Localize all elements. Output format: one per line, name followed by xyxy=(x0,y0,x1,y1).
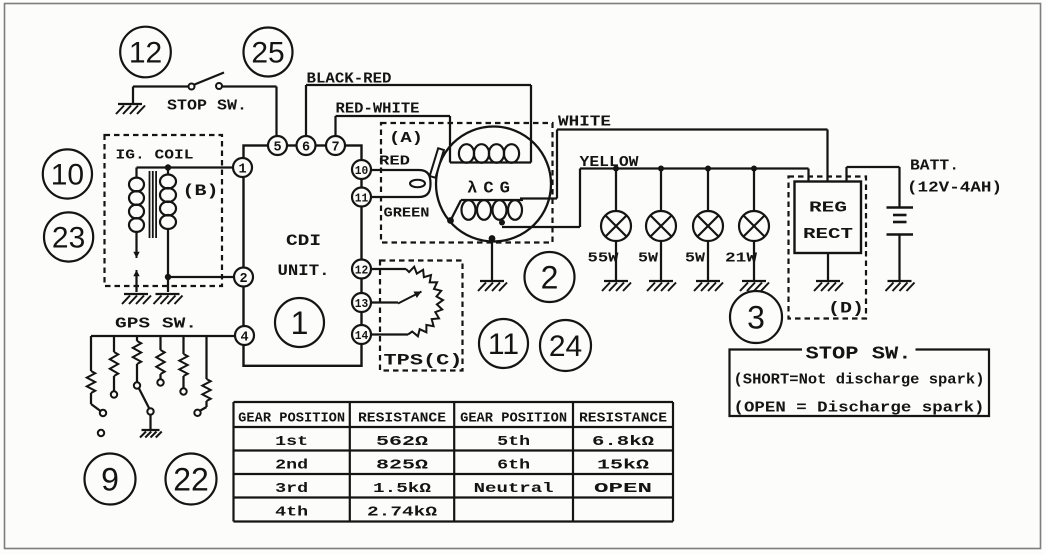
svg-text:7: 7 xyxy=(331,140,339,155)
svg-text:BLACK-RED: BLACK-RED xyxy=(307,71,392,88)
svg-text:9: 9 xyxy=(101,461,119,497)
svg-text:STOP SW.: STOP SW. xyxy=(167,98,247,115)
svg-text:(B): (B) xyxy=(183,182,219,200)
svg-text:4th: 4th xyxy=(275,505,308,521)
svg-text:WHITE: WHITE xyxy=(558,114,611,131)
svg-text:(D): (D) xyxy=(828,300,864,318)
svg-text:REG: REG xyxy=(809,200,847,217)
svg-text:55W: 55W xyxy=(588,252,620,267)
svg-text:(OPEN = Discharge spark): (OPEN = Discharge spark) xyxy=(734,400,985,417)
svg-text:IG. COIL: IG. COIL xyxy=(116,148,194,164)
svg-text:4: 4 xyxy=(240,330,248,345)
svg-text:RED: RED xyxy=(379,155,410,170)
svg-text:2.74kΩ: 2.74kΩ xyxy=(367,505,438,521)
svg-text:RED-WHITE: RED-WHITE xyxy=(336,101,420,118)
svg-text:3: 3 xyxy=(747,299,765,335)
svg-text:21W: 21W xyxy=(725,252,758,267)
svg-text:GREEN: GREEN xyxy=(384,207,430,222)
svg-text:CDI: CDI xyxy=(286,232,321,250)
svg-text:2nd: 2nd xyxy=(275,458,308,474)
svg-text:1: 1 xyxy=(238,162,246,177)
svg-text:11: 11 xyxy=(488,328,519,361)
svg-text:6.8kΩ: 6.8kΩ xyxy=(592,434,655,450)
svg-text:(12V-4AH): (12V-4AH) xyxy=(907,180,1002,197)
svg-text:1.5kΩ: 1.5kΩ xyxy=(373,481,432,497)
svg-text:Neutral: Neutral xyxy=(474,481,554,497)
svg-text:2: 2 xyxy=(541,259,559,295)
svg-text:GPS SW.: GPS SW. xyxy=(115,316,197,333)
svg-text:STOP SW.: STOP SW. xyxy=(806,345,912,365)
svg-text:25: 25 xyxy=(251,37,284,70)
svg-text:2: 2 xyxy=(239,272,247,287)
svg-text:6th: 6th xyxy=(497,458,530,474)
svg-text:12: 12 xyxy=(129,37,162,70)
svg-text:RESISTANCE: RESISTANCE xyxy=(579,411,667,427)
svg-text:(A): (A) xyxy=(389,130,423,147)
svg-text:GEAR POSITION: GEAR POSITION xyxy=(238,411,345,427)
svg-text:OPEN: OPEN xyxy=(594,481,652,497)
svg-text:825Ω: 825Ω xyxy=(376,458,429,474)
svg-text:10: 10 xyxy=(355,164,369,178)
svg-text:11: 11 xyxy=(355,192,369,206)
svg-text:13: 13 xyxy=(355,297,369,311)
svg-text:3rd: 3rd xyxy=(275,481,308,497)
svg-text:λCG: λCG xyxy=(467,180,516,199)
svg-text:5th: 5th xyxy=(497,434,530,450)
svg-text:1: 1 xyxy=(291,305,309,341)
svg-text:23: 23 xyxy=(52,222,85,255)
svg-text:562Ω: 562Ω xyxy=(376,434,429,450)
svg-text:6: 6 xyxy=(302,140,310,155)
svg-text:RECT: RECT xyxy=(803,226,853,243)
svg-text:RESISTANCE: RESISTANCE xyxy=(358,411,446,427)
svg-text:BATT.: BATT. xyxy=(910,158,959,175)
svg-text:10: 10 xyxy=(51,159,84,192)
svg-text:14: 14 xyxy=(355,329,369,343)
svg-text:UNIT.: UNIT. xyxy=(278,262,330,280)
svg-text:15kΩ: 15kΩ xyxy=(597,458,650,474)
svg-text:(SHORT=Not discharge spark): (SHORT=Not discharge spark) xyxy=(734,372,985,389)
svg-text:5W: 5W xyxy=(685,252,706,267)
svg-text:5: 5 xyxy=(273,140,281,155)
svg-text:24: 24 xyxy=(549,330,582,363)
svg-text:5W: 5W xyxy=(638,252,659,267)
svg-text:GEAR POSITION: GEAR POSITION xyxy=(460,411,567,427)
svg-text:12: 12 xyxy=(355,264,369,278)
svg-text:1st: 1st xyxy=(275,434,308,450)
svg-text:22: 22 xyxy=(173,461,209,497)
svg-text:TPS(C): TPS(C) xyxy=(384,352,463,370)
